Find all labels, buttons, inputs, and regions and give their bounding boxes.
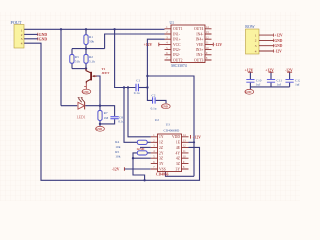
- svg-text:VDD: VDD: [172, 135, 180, 139]
- wire vertical to LED anode: [60, 29, 62, 105]
- wire branch from OUT1 down to C1 left: [115, 29, 136, 87]
- svg-text:5.1k: 5.1k: [89, 60, 95, 64]
- svg-text:4: 4: [21, 42, 23, 46]
- op-amp chip U1 MC33074: [165, 21, 212, 68]
- wire POUT pin3 to GND label: [24, 38, 38, 40]
- svg-text:R4: R4: [115, 140, 119, 144]
- svg-text:0.1u: 0.1u: [134, 91, 140, 95]
- wire T1 gate to R7 node: [97, 76, 101, 106]
- svg-text:VEE: VEE: [196, 43, 204, 47]
- wire mid rail under R1: [72, 48, 105, 50]
- wire LED row right to C8 branch corner: [85, 106, 114, 116]
- background sheet: [0, 0, 300, 201]
- wire long vertical A to R4: [124, 88, 137, 143]
- power port -12V at C12: [285, 69, 293, 73]
- svg-text:1: 1: [255, 33, 257, 37]
- svg-text:1uf: 1uf: [295, 83, 300, 87]
- wire C8 bottom lead: [100, 119, 115, 124]
- svg-text:+12V: +12V: [274, 34, 283, 38]
- connector POUT: [11, 20, 25, 48]
- svg-text:JFET: JFET: [102, 71, 111, 75]
- wire node X vertical U1 pin3 down to C2: [147, 39, 164, 100]
- svg-text:51k: 51k: [75, 60, 80, 64]
- transistor T1 gate arrow: [92, 75, 95, 77]
- resistor R4: [137, 140, 147, 144]
- svg-text:R1: R1: [89, 35, 93, 39]
- ground under T1: [82, 83, 91, 94]
- svg-text:GND: GND: [162, 106, 168, 109]
- svg-text:C2: C2: [152, 93, 156, 97]
- svg-text:3: 3: [21, 37, 23, 41]
- svg-text:GND: GND: [274, 44, 282, 48]
- wire net OUT1 top horizontal from POUT pin1 to U1 pin1: [24, 28, 165, 30]
- svg-text:0.1u: 0.1u: [118, 120, 124, 124]
- svg-text:10k: 10k: [115, 155, 120, 159]
- svg-text:+12V: +12V: [193, 135, 202, 139]
- svg-text:10k: 10k: [115, 145, 120, 149]
- svg-text:GND: GND: [39, 38, 48, 42]
- svg-text:50k: 50k: [89, 40, 94, 44]
- svg-text:-12V: -12V: [285, 69, 293, 73]
- power port +12V at C11: [265, 69, 274, 73]
- wire R1 top lead: [85, 29, 87, 35]
- net labels on ROW pins: [274, 34, 283, 54]
- svg-text:CD4066BD: CD4066BD: [164, 129, 180, 133]
- ground under R7: [96, 126, 105, 131]
- svg-text:IN1+: IN1+: [173, 38, 181, 42]
- wire R4 right lead: [147, 141, 151, 143]
- svg-text:C1: C1: [136, 79, 140, 83]
- wire R3 leads: [71, 49, 73, 69]
- wire U3 pin3 GND stub: [140, 146, 151, 148]
- svg-text:2: 2: [255, 39, 257, 43]
- capacitor C2: [151, 93, 157, 110]
- ground at decoupling rail: [245, 89, 254, 94]
- svg-text:GND: GND: [137, 147, 145, 151]
- power port +12V at C10: [245, 69, 254, 73]
- wire R5 left lead loop to bottom rail: [133, 153, 145, 180]
- svg-text:2: 2: [21, 33, 23, 37]
- wire LED row left: [61, 105, 77, 107]
- svg-text:IN2+: IN2+: [173, 48, 181, 52]
- resistor R1: [84, 35, 94, 45]
- svg-text:GND: GND: [245, 91, 251, 94]
- wire R1 bottom lead: [85, 44, 87, 48]
- svg-text:IN3+: IN3+: [196, 48, 204, 52]
- wire POUT pin2 to GND label: [24, 33, 38, 35]
- wire U3 pin5: [133, 157, 151, 159]
- svg-text:GND: GND: [39, 33, 48, 37]
- svg-text:IN2-: IN2-: [173, 53, 181, 57]
- svg-text:GND: GND: [96, 128, 102, 131]
- svg-text:4Y: 4Y: [175, 151, 180, 155]
- capacitor C1: [134, 79, 141, 95]
- capacitor C11: [267, 78, 282, 86]
- svg-text:0.1u: 0.1u: [151, 107, 157, 111]
- svg-text:3Y: 3Y: [159, 162, 164, 166]
- svg-text:1: 1: [21, 28, 23, 32]
- svg-text:IN4-: IN4-: [196, 32, 204, 36]
- capacitor C8: [110, 116, 124, 124]
- wire long vertical B to U3 pin1: [128, 88, 151, 137]
- wire decoupling cap stubs and rail: [250, 72, 289, 89]
- svg-text:-12V: -12V: [214, 43, 222, 47]
- net label GND on POUT pin2: [37, 33, 39, 41]
- capacitor C10: [246, 78, 261, 86]
- wire from mid rail up to U1 pin2: [105, 34, 165, 49]
- svg-text:U2: U2: [155, 118, 159, 122]
- svg-text:+12V: +12V: [144, 43, 153, 47]
- svg-text:3: 3: [255, 44, 257, 48]
- svg-text:OUT4: OUT4: [194, 27, 204, 31]
- svg-text:GND: GND: [274, 39, 282, 43]
- svg-text:U3: U3: [166, 123, 170, 127]
- svg-text:IN3-: IN3-: [196, 53, 204, 57]
- wire R7 leads: [99, 106, 101, 127]
- labels R4 10k R5 10k: [115, 140, 120, 158]
- power port +12V at U3 VDD: [191, 135, 202, 139]
- wire R5 right lead: [147, 152, 151, 154]
- svg-text:OUT1: OUT1: [173, 27, 183, 31]
- power port +12V at U1 VCC: [144, 43, 165, 47]
- wire R2 leads: [85, 49, 87, 69]
- wire node rail R3 R2 bottom: [72, 68, 86, 70]
- svg-text:+12V: +12V: [245, 69, 254, 73]
- power port -12V at U3 VSS: [112, 167, 125, 171]
- resistor R2: [84, 55, 95, 64]
- resistor R5: [137, 151, 147, 155]
- svg-text:LED1: LED1: [77, 116, 86, 120]
- svg-text:ROW: ROW: [245, 24, 255, 29]
- svg-text:VSS: VSS: [159, 167, 166, 171]
- svg-text:MC33074: MC33074: [171, 64, 187, 68]
- capacitor C12: [286, 78, 301, 86]
- LED1 emission arrowheads: [77, 97, 83, 99]
- analog switch chip U3 CD4066BD: [151, 118, 189, 177]
- svg-text:1M: 1M: [104, 116, 109, 120]
- wire POUT pin4 down left loop to bottom rail and U3 pin12: [24, 43, 200, 180]
- svg-text:IN4+: IN4+: [196, 38, 204, 42]
- svg-text:GND: GND: [82, 91, 88, 94]
- svg-text:R5: R5: [115, 150, 119, 154]
- connector ROW: [245, 24, 259, 54]
- svg-text:4: 4: [255, 49, 257, 53]
- connector ROW pin stubs: [259, 35, 274, 51]
- svg-text:IN1-: IN1-: [173, 32, 181, 36]
- power port -12V at U1 VEE: [212, 43, 223, 47]
- svg-text:3Y: 3Y: [175, 167, 180, 171]
- svg-text:R7: R7: [104, 111, 108, 115]
- wire C2 right to GND port: [156, 100, 166, 103]
- svg-text:2Y: 2Y: [159, 151, 164, 155]
- svg-text:U1: U1: [170, 21, 175, 25]
- transistor T1 JFET: [86, 69, 97, 84]
- resistor R7: [98, 111, 108, 121]
- wire U3 pin13 loop: [166, 142, 195, 176]
- svg-text:VCC: VCC: [173, 43, 181, 47]
- svg-text:1Y: 1Y: [159, 135, 164, 139]
- svg-text:OUT2: OUT2: [173, 58, 183, 62]
- svg-text:-12V: -12V: [274, 49, 282, 53]
- svg-text:OUT3: OUT3: [194, 58, 204, 62]
- svg-text:+12V: +12V: [265, 69, 274, 73]
- svg-text:-12V: -12V: [112, 167, 120, 171]
- wire U3 pin7 VSS to -12V: [124, 168, 150, 170]
- resistor R3: [70, 55, 80, 64]
- ground at C2: [161, 104, 170, 109]
- svg-text:R3: R3: [75, 55, 79, 59]
- LED LED1: [78, 102, 85, 109]
- wire C1 right to node X: [139, 87, 148, 89]
- svg-text:R2: R2: [89, 55, 93, 59]
- wire feedback from node X to U3 pin13 area: [147, 76, 194, 176]
- svg-text:CD4066: CD4066: [156, 173, 169, 177]
